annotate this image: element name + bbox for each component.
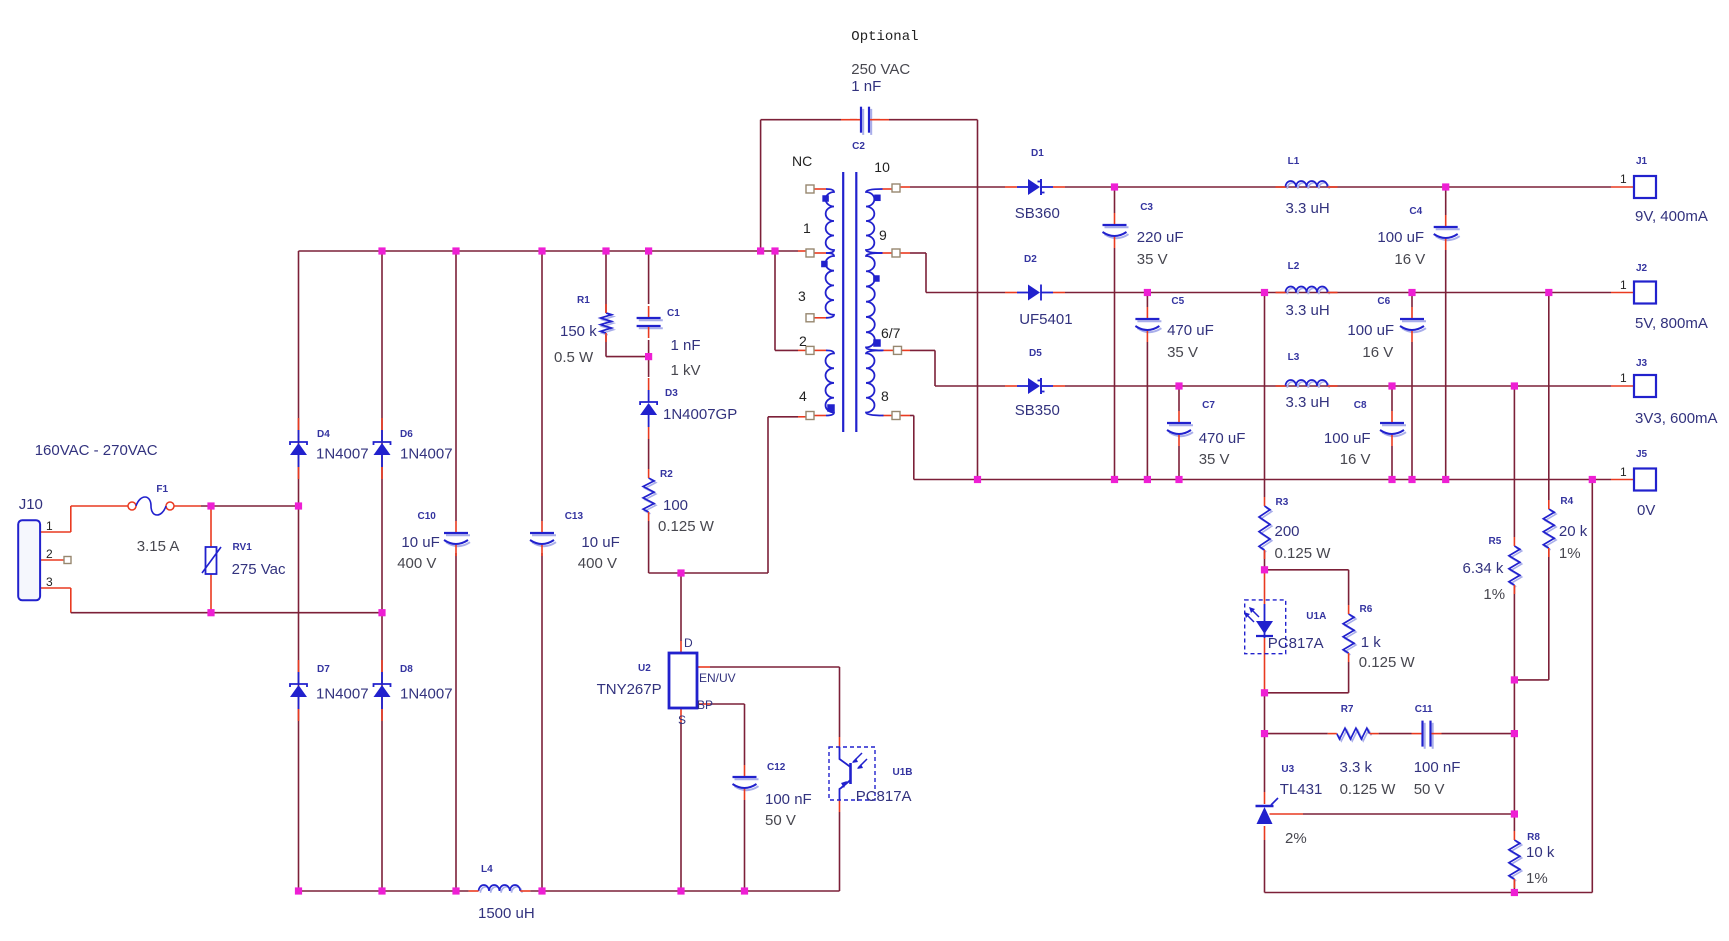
svg-text:3.15 A: 3.15 A (137, 538, 180, 555)
svg-text:L2: L2 (1288, 261, 1300, 272)
svg-text:C6: C6 (1377, 296, 1390, 307)
svg-text:16 V: 16 V (1362, 344, 1393, 361)
svg-text:S: S (678, 713, 686, 727)
svg-text:D3: D3 (665, 388, 678, 399)
svg-text:UF5401: UF5401 (1019, 311, 1072, 328)
svg-text:275 Vac: 275 Vac (232, 561, 286, 578)
svg-text:1: 1 (803, 220, 811, 236)
svg-text:35 V: 35 V (1137, 251, 1168, 268)
svg-text:50 V: 50 V (1414, 781, 1445, 798)
svg-text:1%: 1% (1559, 545, 1581, 562)
svg-text:1 kV: 1 kV (671, 362, 701, 379)
svg-text:5V, 800mA: 5V, 800mA (1635, 315, 1708, 332)
svg-text:16 V: 16 V (1340, 451, 1371, 468)
svg-text:0V: 0V (1637, 502, 1655, 519)
svg-text:1N4007: 1N4007 (316, 686, 369, 703)
svg-text:470 uF: 470 uF (1167, 322, 1214, 339)
svg-text:1: 1 (1620, 371, 1627, 385)
svg-text:J10: J10 (19, 496, 43, 513)
svg-text:D2: D2 (1024, 254, 1037, 265)
svg-text:R5: R5 (1489, 536, 1502, 547)
svg-text:R1: R1 (577, 295, 590, 306)
svg-text:2: 2 (46, 547, 53, 561)
svg-text:160VAC - 270VAC: 160VAC - 270VAC (35, 442, 158, 459)
svg-text:PC817A: PC817A (1268, 635, 1324, 652)
svg-text:0.125 W: 0.125 W (1359, 654, 1416, 671)
svg-text:TL431: TL431 (1280, 781, 1323, 798)
svg-text:1%: 1% (1526, 870, 1548, 887)
svg-text:SB350: SB350 (1015, 402, 1060, 419)
svg-text:35 V: 35 V (1199, 451, 1230, 468)
svg-text:3V3, 600mA: 3V3, 600mA (1635, 410, 1718, 427)
svg-text:100: 100 (663, 497, 688, 514)
svg-text:BP: BP (697, 698, 713, 712)
svg-text:R7: R7 (1341, 704, 1354, 715)
svg-text:100 uF: 100 uF (1377, 229, 1424, 246)
svg-text:L1: L1 (1288, 156, 1300, 167)
svg-text:3.3 uH: 3.3 uH (1286, 200, 1330, 217)
svg-text:9V, 400mA: 9V, 400mA (1635, 208, 1708, 225)
svg-text:9: 9 (879, 227, 887, 243)
svg-text:R4: R4 (1560, 496, 1573, 507)
svg-text:2%: 2% (1285, 830, 1307, 847)
svg-text:6.34 k: 6.34 k (1463, 560, 1504, 577)
svg-text:J5: J5 (1636, 449, 1648, 460)
svg-text:C1: C1 (667, 308, 680, 319)
svg-text:1N4007: 1N4007 (400, 686, 453, 703)
svg-text:R3: R3 (1276, 497, 1289, 508)
svg-text:470 uF: 470 uF (1199, 430, 1246, 447)
svg-text:400 V: 400 V (578, 555, 617, 572)
svg-text:50 V: 50 V (765, 812, 796, 829)
svg-text:D7: D7 (317, 664, 330, 675)
svg-text:D6: D6 (400, 429, 413, 440)
svg-text:1: 1 (1620, 465, 1627, 479)
svg-text:16 V: 16 V (1394, 251, 1425, 268)
svg-text:100 nF: 100 nF (765, 791, 812, 808)
svg-text:1N4007GP: 1N4007GP (663, 406, 737, 423)
svg-text:U2: U2 (638, 663, 651, 674)
svg-text:1: 1 (1620, 172, 1627, 186)
svg-text:C5: C5 (1171, 296, 1184, 307)
svg-text:0.5 W: 0.5 W (554, 349, 594, 366)
svg-text:U1B: U1B (893, 767, 913, 778)
svg-text:TNY267P: TNY267P (597, 681, 662, 698)
svg-text:3.3 k: 3.3 k (1340, 759, 1373, 776)
svg-text:R6: R6 (1360, 604, 1373, 615)
svg-text:D8: D8 (400, 664, 413, 675)
svg-text:NC: NC (792, 153, 812, 169)
svg-text:R8: R8 (1527, 832, 1540, 843)
svg-text:D1: D1 (1031, 148, 1044, 159)
svg-text:D: D (684, 636, 693, 650)
svg-text:220 uF: 220 uF (1137, 229, 1184, 246)
svg-text:3: 3 (46, 575, 53, 589)
svg-text:PC817A: PC817A (856, 788, 912, 805)
svg-text:10 k: 10 k (1526, 844, 1555, 861)
svg-text:RV1: RV1 (233, 542, 253, 553)
svg-text:3.3 uH: 3.3 uH (1286, 302, 1330, 319)
svg-text:C13: C13 (565, 511, 584, 522)
svg-text:C11: C11 (1415, 704, 1433, 715)
svg-text:10 uF: 10 uF (581, 534, 619, 551)
svg-text:J3: J3 (1636, 358, 1648, 369)
svg-text:F1: F1 (156, 484, 168, 495)
svg-text:1%: 1% (1483, 586, 1505, 603)
svg-text:1 nF: 1 nF (671, 337, 701, 354)
svg-text:20 k: 20 k (1559, 523, 1588, 540)
svg-text:0.125 W: 0.125 W (1340, 781, 1397, 798)
svg-text:D4: D4 (317, 429, 330, 440)
svg-text:2: 2 (799, 333, 807, 349)
svg-text:SB360: SB360 (1015, 205, 1060, 222)
svg-text:EN/UV: EN/UV (699, 671, 736, 685)
svg-text:10: 10 (874, 159, 890, 175)
svg-text:D5: D5 (1029, 348, 1042, 359)
svg-text:6/7: 6/7 (881, 325, 901, 341)
svg-text:4: 4 (799, 388, 807, 404)
svg-text:100 uF: 100 uF (1324, 430, 1371, 447)
svg-text:0.125 W: 0.125 W (1275, 545, 1332, 562)
svg-text:10 uF: 10 uF (401, 534, 439, 551)
svg-text:R2: R2 (660, 469, 673, 480)
svg-text:3.3 uH: 3.3 uH (1286, 394, 1330, 411)
svg-text:J2: J2 (1636, 263, 1648, 274)
svg-text:C8: C8 (1354, 400, 1367, 411)
svg-text:J1: J1 (1636, 156, 1648, 167)
svg-text:U3: U3 (1281, 764, 1294, 775)
svg-text:0.125 W: 0.125 W (658, 518, 715, 535)
svg-text:C10: C10 (418, 511, 437, 522)
svg-text:200: 200 (1275, 523, 1300, 540)
svg-text:250 VAC: 250 VAC (851, 61, 910, 78)
svg-text:1: 1 (1620, 278, 1627, 292)
svg-text:3: 3 (798, 288, 806, 304)
svg-text:400 V: 400 V (397, 555, 436, 572)
svg-text:1N4007: 1N4007 (400, 446, 453, 463)
svg-text:U1A: U1A (1306, 611, 1326, 622)
svg-text:C3: C3 (1140, 202, 1153, 213)
svg-text:1 nF: 1 nF (851, 78, 881, 95)
svg-text:L4: L4 (481, 864, 493, 875)
svg-text:100 nF: 100 nF (1414, 759, 1461, 776)
svg-text:1: 1 (46, 519, 53, 533)
svg-text:C4: C4 (1409, 206, 1422, 217)
svg-text:Optional: Optional (851, 29, 918, 45)
svg-text:1500 uH: 1500 uH (478, 905, 535, 922)
svg-text:C12: C12 (767, 762, 786, 773)
svg-text:C7: C7 (1202, 400, 1215, 411)
svg-text:1 k: 1 k (1361, 634, 1382, 651)
svg-text:35 V: 35 V (1167, 344, 1198, 361)
svg-text:100 uF: 100 uF (1347, 322, 1394, 339)
svg-text:L3: L3 (1288, 352, 1300, 363)
svg-text:1N4007: 1N4007 (316, 446, 369, 463)
svg-text:150 k: 150 k (560, 323, 597, 340)
svg-text:C2: C2 (852, 141, 865, 152)
svg-text:8: 8 (881, 388, 889, 404)
